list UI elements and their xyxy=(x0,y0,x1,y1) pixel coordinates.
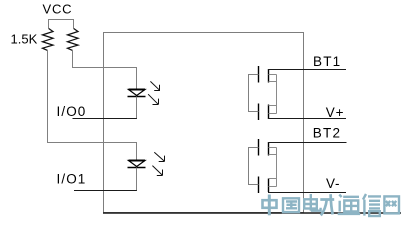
wire V+ lead xyxy=(268,118,346,120)
char 网 xyxy=(384,196,399,213)
LED D1 xyxy=(128,90,146,97)
transistor Q1 gate connector xyxy=(249,75,259,112)
svg-text:BT2: BT2 xyxy=(313,126,341,141)
char 中 xyxy=(263,195,277,216)
LED D1 emission arrows xyxy=(148,81,160,104)
svg-text:BT1: BT1 xyxy=(313,54,341,69)
svg-text:VCC: VCC xyxy=(43,1,73,16)
wire VCC bus with stubs xyxy=(49,20,74,29)
svg-text:V-: V- xyxy=(326,176,340,191)
wire LED1 cathode down xyxy=(136,97,138,119)
resistor R2 xyxy=(68,28,79,50)
watermark 中国电力通信网 xyxy=(263,194,400,216)
svg-text:I/O0: I/O0 xyxy=(57,104,87,119)
wire R1 to LED2 anode xyxy=(48,50,137,161)
optocoupler package box U1 xyxy=(104,33,304,213)
char 电 xyxy=(304,194,320,211)
resistor R1 value 1.5K xyxy=(43,28,54,50)
transistor Q2 body connector xyxy=(276,148,278,187)
wire LED2 cathode down xyxy=(136,168,138,191)
wire R2 to LED1 anode xyxy=(73,50,137,89)
wire BT2 lead xyxy=(268,142,347,144)
wire I/O1 to LED2 cathode xyxy=(74,190,137,192)
transistor Q2 gate connector xyxy=(249,148,259,185)
wire I/O0 to LED1 cathode xyxy=(73,118,137,120)
char 通 xyxy=(338,195,361,214)
LED D2 xyxy=(128,161,146,168)
transistor Q2 body stubs xyxy=(269,148,277,187)
char 信 xyxy=(363,194,381,216)
LED D2 emission arrows xyxy=(152,152,164,175)
transistor Q1 body stubs xyxy=(269,75,277,114)
transistor Q1 channel bars xyxy=(268,69,270,119)
box bottom edge xyxy=(103,212,401,214)
svg-text:V+: V+ xyxy=(326,105,345,120)
wire BT1 lead xyxy=(268,69,346,71)
transistor Q2 gate bars xyxy=(258,139,260,193)
svg-text:1.5K: 1.5K xyxy=(11,32,38,47)
svg-text:I/O1: I/O1 xyxy=(57,172,87,187)
transistor Q1 gate bars xyxy=(258,66,260,120)
transistor Q2 channel bars xyxy=(268,142,270,192)
char 力 xyxy=(320,194,334,215)
char 国 xyxy=(283,198,299,212)
transistor Q1 body connector xyxy=(276,75,278,114)
wire V- lead xyxy=(268,192,346,194)
